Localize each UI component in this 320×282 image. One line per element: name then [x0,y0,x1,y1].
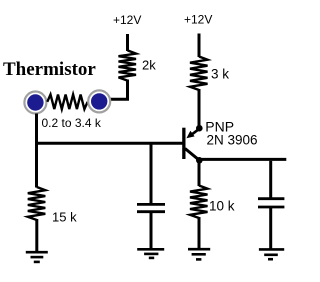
transistor Q1 base bar [182,128,185,159]
wire 10k to ground [198,217,201,249]
wire 2k bottom to thermistor right terminal [110,80,128,100]
transistor Q1 collector lead [185,149,200,161]
node collector junction dot [196,157,203,164]
svg-text:Thermistor: Thermistor [3,59,96,80]
transistor Q1 emitter lead with arrow (PNP) [191,129,199,135]
wire 3k bottom to emitter node [198,89,201,128]
svg-text:10 k: 10 k [209,199,235,214]
wire bus down to capacitor C1 [150,144,153,204]
ground (under 10k) [188,249,210,259]
wire top stub down to capacitor C2 [269,161,272,198]
ground (under 15k) [26,252,48,262]
svg-text:2k: 2k [142,58,156,73]
wire base bus [35,142,184,145]
capacitor C1 [137,204,165,211]
resistor R4 10 k [190,186,208,219]
wire from +12V to 3k top [198,34,201,58]
svg-text:+12V: +12V [113,13,141,27]
node emitter junction dot [196,125,203,132]
resistor R1 2k [119,50,137,80]
wire collector node down to 10k [198,160,201,186]
thermistor right terminal [88,90,110,112]
svg-text:3 k: 3 k [211,67,229,82]
thermistor left terminal [24,92,46,114]
resistor R2 15 k [28,187,46,220]
wire C2 to ground [269,207,272,249]
wire from +12V to 2k top [126,34,129,51]
wire C1 to ground [150,212,153,250]
ground (under C1) [137,249,164,258]
wire bus down to 15k [35,143,38,187]
wire thermistor left terminal down to base bus [35,114,38,145]
wire 15k to ground [35,219,38,252]
thermistor element (zigzag) [47,95,87,110]
capacitor C2 [258,199,284,207]
ground (under C2) [259,249,284,259]
svg-text:15 k: 15 k [52,210,77,225]
svg-text:+12V: +12V [184,13,212,27]
svg-text:2N 3906: 2N 3906 [207,133,258,148]
wire collector node to right stub [198,158,286,161]
resistor R3 3 k [190,57,208,91]
svg-text:0.2 to 3.4 k: 0.2 to 3.4 k [42,116,102,130]
